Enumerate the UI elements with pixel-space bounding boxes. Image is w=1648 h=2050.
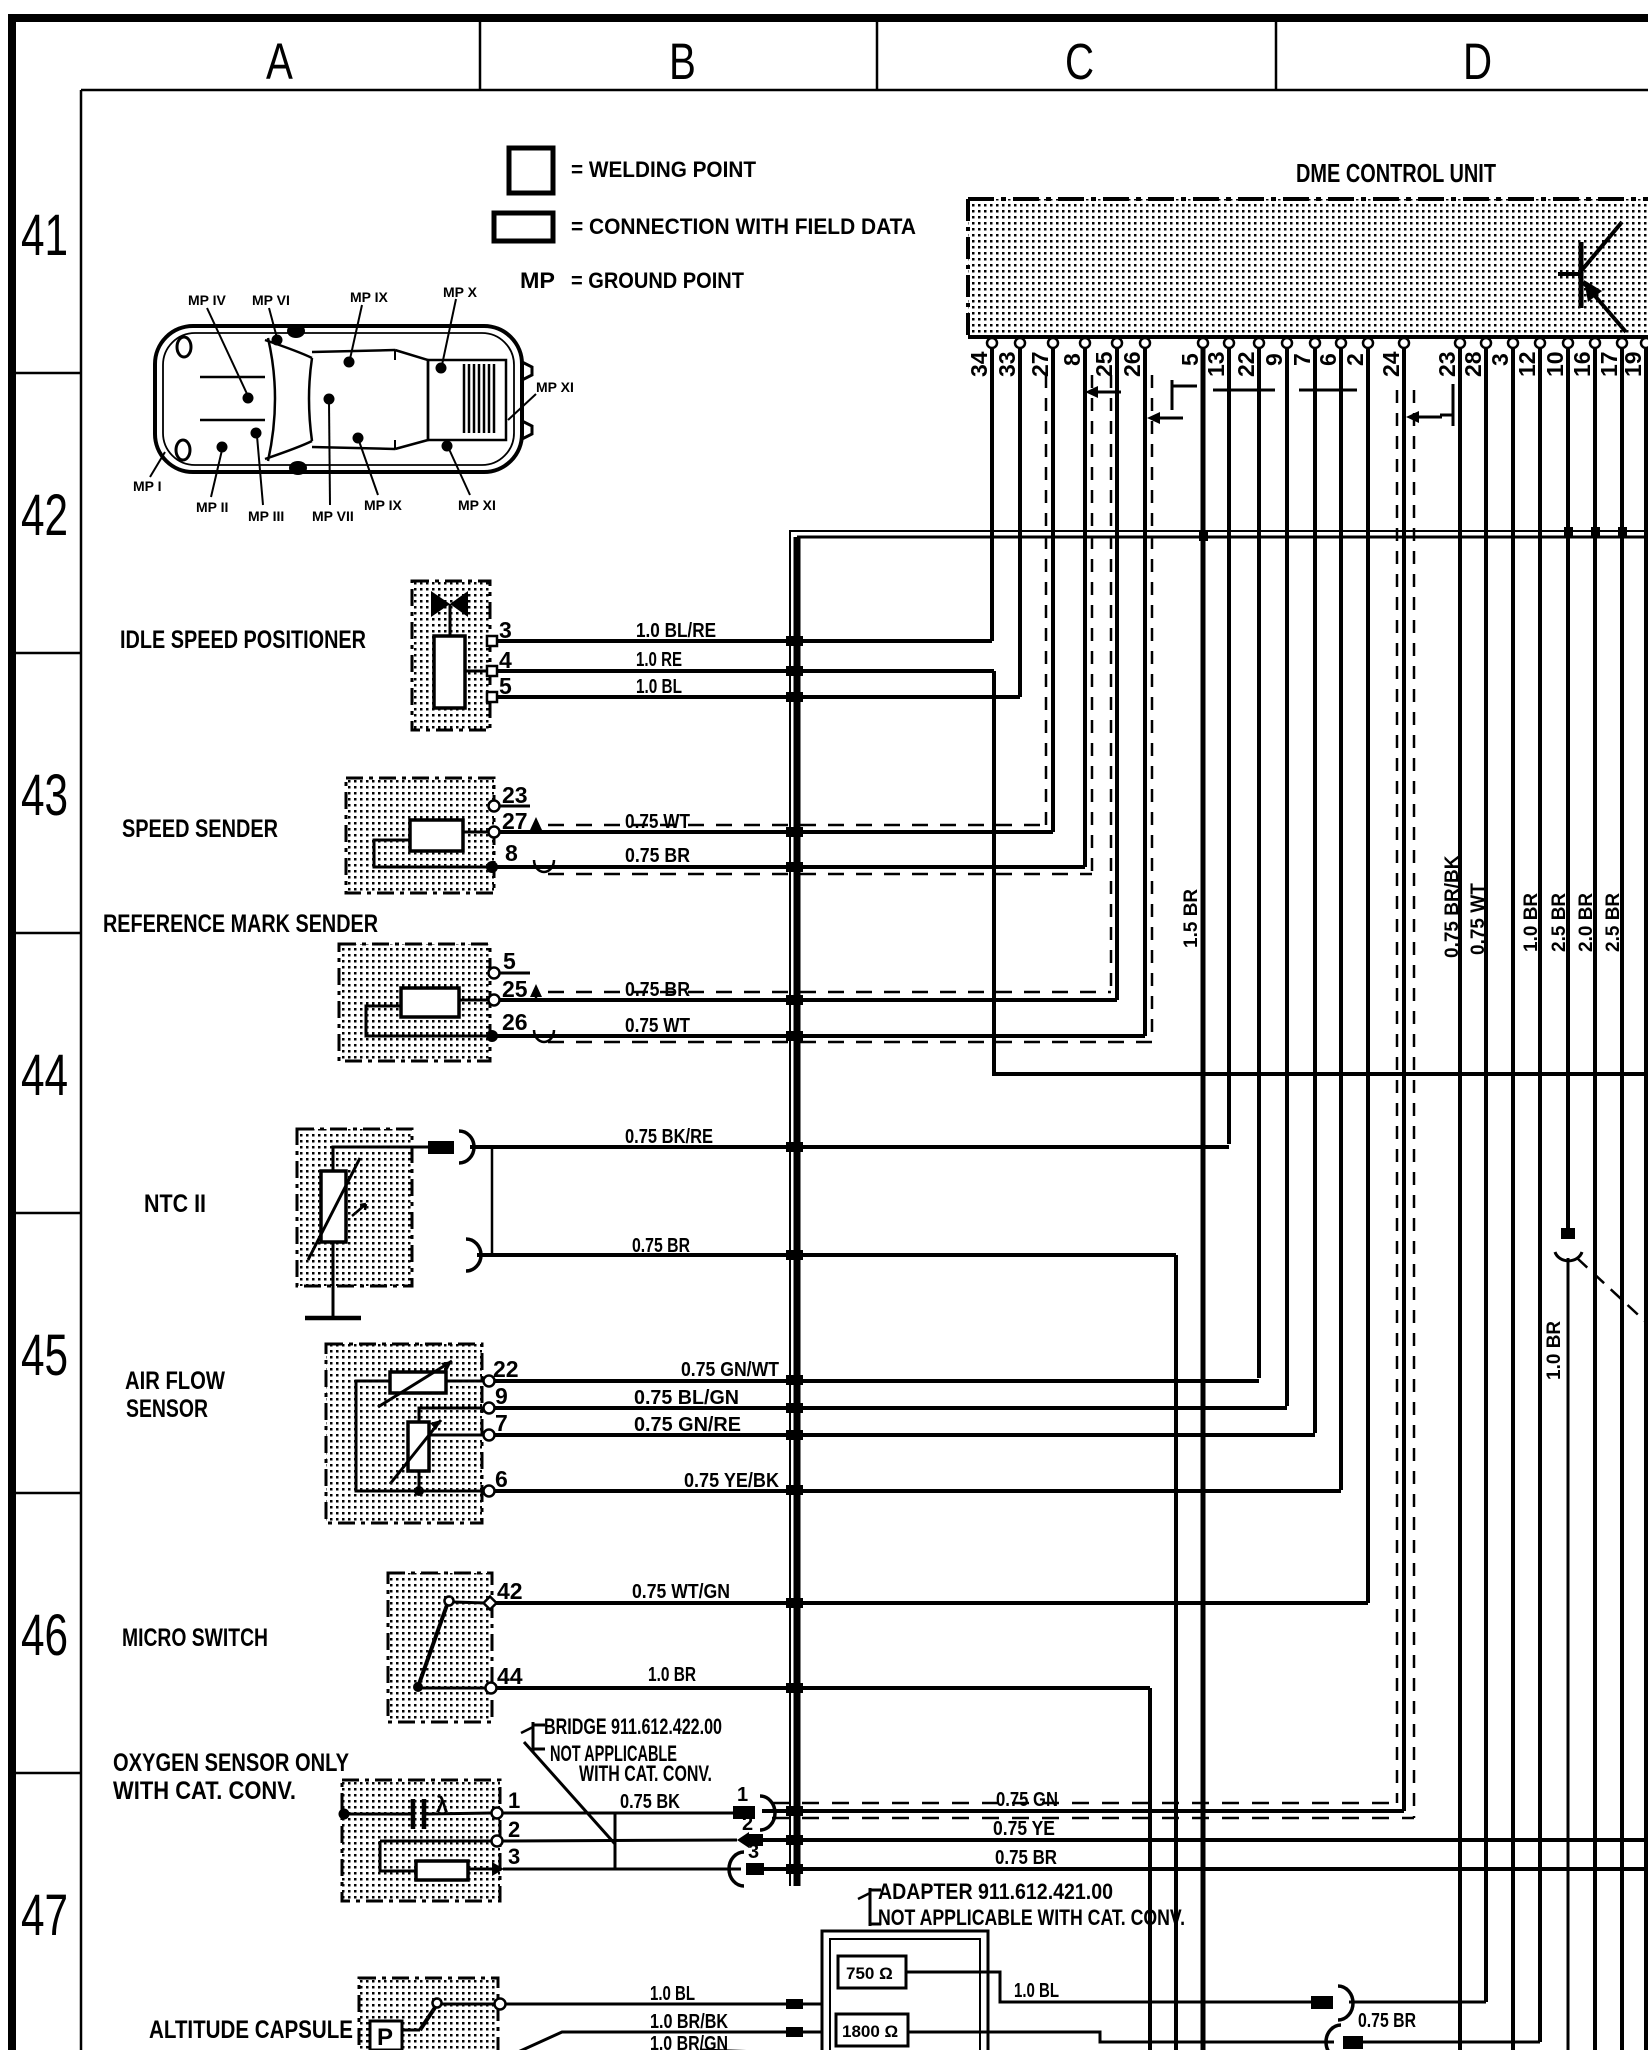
svg-text:1: 1 [508,1788,520,1813]
svg-text:2: 2 [1342,353,1368,366]
svg-text:33: 33 [994,351,1020,377]
svg-text:46: 46 [21,1602,68,1667]
svg-text:42: 42 [497,1578,523,1604]
svg-text:MP I: MP I [133,478,162,494]
svg-text:22: 22 [1233,351,1259,377]
svg-text:44: 44 [21,1042,68,1107]
svg-text:2.0 BR: 2.0 BR [1576,893,1597,952]
svg-text:0.75 YE: 0.75 YE [993,1818,1055,1840]
svg-text:OXYGEN SENSOR ONLY: OXYGEN SENSOR ONLY [113,1749,349,1777]
svg-text:0.75 BR: 0.75 BR [632,1235,690,1257]
svg-text:23: 23 [502,782,528,808]
svg-text:MP X: MP X [443,284,478,300]
svg-text:5: 5 [1177,353,1203,366]
svg-text:0.75 GN/WT: 0.75 GN/WT [681,1359,779,1381]
svg-text:C: C [1065,32,1094,90]
svg-text:WITH CAT. CONV.: WITH CAT. CONV. [113,1777,296,1805]
svg-text:16: 16 [1569,351,1595,377]
svg-text:0.75 GN/RE: 0.75 GN/RE [634,1414,741,1436]
svg-text:8: 8 [505,840,518,866]
svg-text:750 Ω: 750 Ω [846,1964,893,1983]
svg-text:0.75 BL/GN: 0.75 BL/GN [634,1387,739,1409]
svg-text:7: 7 [495,1410,508,1436]
svg-text:MP II: MP II [196,499,228,515]
svg-text:3: 3 [508,1844,520,1869]
svg-text:9: 9 [1261,353,1287,366]
svg-text:24: 24 [1378,351,1404,377]
svg-text:= GROUND POINT: = GROUND POINT [571,268,745,293]
svg-text:0.75 WT: 0.75 WT [625,1015,690,1037]
svg-text:7: 7 [1289,353,1315,366]
svg-text:1.0 BR/GN: 1.0 BR/GN [650,2033,728,2050]
svg-text:23: 23 [1434,351,1460,377]
svg-text:1: 1 [737,1784,748,1806]
svg-text:3: 3 [1487,353,1513,366]
svg-text:0.75 BR/BK: 0.75 BR/BK [1442,855,1463,958]
svg-text:0.75 WT: 0.75 WT [1468,883,1489,955]
svg-text:WITH CAT. CONV.: WITH CAT. CONV. [579,1761,712,1786]
svg-text:MP IV: MP IV [188,292,227,308]
svg-text:1.0 BL/RE: 1.0 BL/RE [636,620,716,642]
svg-text:P: P [377,2024,393,2050]
svg-text:2: 2 [508,1817,520,1842]
svg-text:0.75 BR: 0.75 BR [1358,2010,1416,2032]
svg-text:2.5 BR: 2.5 BR [1549,893,1570,952]
svg-text:12: 12 [1514,351,1540,377]
svg-text:IDLE SPEED POSITIONER: IDLE SPEED POSITIONER [120,626,366,654]
svg-text:9: 9 [495,1383,508,1409]
svg-text:6: 6 [495,1466,508,1492]
svg-text:2: 2 [742,1813,753,1835]
svg-text:27: 27 [1027,351,1053,377]
svg-text:MP XI: MP XI [458,497,496,513]
svg-text:44: 44 [497,1663,523,1689]
svg-text:43: 43 [21,762,68,827]
svg-text:2.5 BR: 2.5 BR [1603,893,1624,952]
svg-text:1.0 BR: 1.0 BR [1521,893,1542,952]
svg-text:0.75 YE/BK: 0.75 YE/BK [684,1470,779,1492]
svg-text:17: 17 [1596,351,1622,377]
svg-text:1.5 BR: 1.5 BR [1181,889,1202,948]
svg-text:47: 47 [21,1882,68,1947]
svg-text:1.0 BL: 1.0 BL [650,1983,695,2005]
svg-text:0.75 BK: 0.75 BK [620,1791,680,1813]
svg-text:ALTITUDE CAPSULE: ALTITUDE CAPSULE [149,2016,353,2044]
svg-text:DME CONTROL UNIT: DME CONTROL UNIT [1296,158,1496,188]
svg-text:D: D [1463,32,1492,90]
svg-text:1.0 BR: 1.0 BR [648,1664,696,1686]
svg-text:0.75 BR: 0.75 BR [625,845,690,867]
svg-text:1.0 BL: 1.0 BL [636,676,682,698]
svg-text:26: 26 [502,1009,528,1035]
svg-text:0.75 BR: 0.75 BR [625,979,690,1001]
svg-text:MP III: MP III [248,508,284,524]
svg-text:1.0 BR/BK: 1.0 BR/BK [650,2011,728,2033]
svg-text:B: B [669,32,696,90]
svg-text:MP XI: MP XI [536,379,574,395]
svg-text:MICRO SWITCH: MICRO SWITCH [122,1624,268,1652]
svg-text:= WELDING POINT: = WELDING POINT [571,157,757,182]
svg-text:41: 41 [21,202,68,267]
svg-text:5: 5 [503,948,516,974]
svg-text:8: 8 [1059,353,1085,366]
svg-text:42: 42 [21,482,68,547]
svg-text:0.75 WT/GN: 0.75 WT/GN [632,1581,730,1603]
svg-text:A: A [266,32,293,90]
svg-text:= CONNECTION WITH FIELD DATA: = CONNECTION WITH FIELD DATA [571,214,916,239]
svg-text:SPEED SENDER: SPEED SENDER [122,815,278,843]
svg-text:BRIDGE 911.612.422.00: BRIDGE 911.612.422.00 [544,1714,722,1739]
svg-text:λ: λ [436,1792,448,1817]
svg-text:MP: MP [520,268,555,293]
svg-text:1.0 BL: 1.0 BL [1014,1980,1059,2002]
svg-text:SENSOR: SENSOR [126,1395,208,1423]
svg-text:NTC II: NTC II [144,1190,206,1218]
svg-text:NOT APPLICABLE WITH CAT. CONV.: NOT APPLICABLE WITH CAT. CONV. [878,1905,1185,1930]
svg-text:6: 6 [1315,353,1341,366]
svg-text:22: 22 [493,1356,519,1382]
svg-text:MP IX: MP IX [364,497,403,513]
svg-text:0.75 BR: 0.75 BR [995,1847,1057,1869]
svg-text:10: 10 [1542,351,1568,377]
svg-text:MP VI: MP VI [252,292,290,308]
svg-text:MP VII: MP VII [312,508,354,524]
svg-text:ADAPTER 911.612.421.00: ADAPTER 911.612.421.00 [878,1879,1113,1904]
svg-text:34: 34 [966,351,992,377]
svg-text:26: 26 [1119,351,1145,377]
svg-text:REFERENCE MARK SENDER: REFERENCE MARK SENDER [103,910,378,938]
svg-text:28: 28 [1460,351,1486,377]
svg-text:1.0 BR: 1.0 BR [1544,1321,1565,1380]
svg-text:3: 3 [748,1841,759,1863]
svg-text:AIR FLOW: AIR FLOW [125,1367,225,1395]
svg-text:0.75 WT: 0.75 WT [625,811,690,833]
svg-text:MP IX: MP IX [350,289,389,305]
svg-text:1.0 RE: 1.0 RE [636,649,682,671]
svg-text:13: 13 [1203,351,1229,377]
svg-text:45: 45 [21,1322,68,1387]
svg-text:0.75 BK/RE: 0.75 BK/RE [625,1126,713,1148]
svg-text:1800 Ω: 1800 Ω [842,2022,898,2041]
svg-text:0.75 GN: 0.75 GN [996,1789,1058,1811]
svg-text:25: 25 [1091,351,1117,377]
